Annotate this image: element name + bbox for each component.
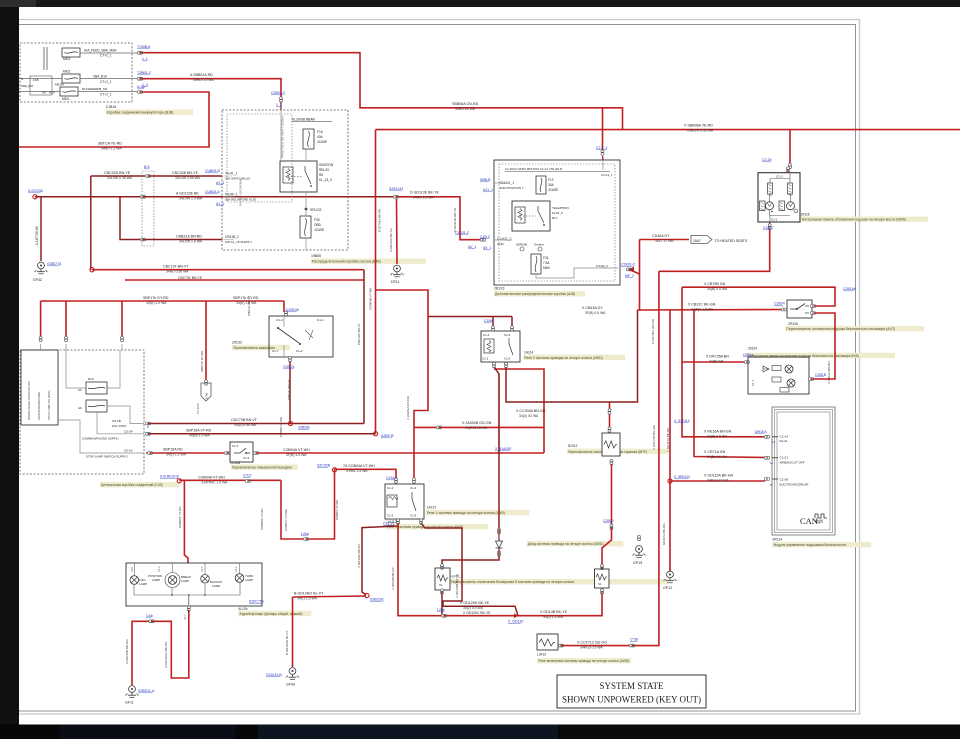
svg-text:MF_2: MF_2	[625, 274, 634, 278]
svg-text:CUB03-B: CUB03-B	[205, 169, 220, 173]
svg-text:34(1) 1.5 WA: 34(1) 1.5 WA	[297, 597, 318, 601]
svg-text:C1-1: C1-1	[771, 218, 778, 222]
svg-text:X GD129C BK-YE: X GD129C BK-YE	[463, 611, 491, 615]
svg-text:34(2) 0.5 WA: 34(2) 0.5 WA	[463, 606, 484, 610]
svg-text:29C32: 29C32	[232, 341, 242, 345]
svg-text:X DR735A BN: X DR735A BN	[706, 355, 729, 359]
svg-text:CT>2_1: CT>2_1	[100, 80, 112, 84]
svg-text:X GD129D BK-YE: X GD129D BK-YE	[460, 601, 490, 605]
svg-text:3F(B) 1.5 WA: 3F(B) 1.5 WA	[286, 453, 307, 457]
svg-text:C1-14: C1-14	[780, 435, 789, 439]
svg-text:N: N	[21, 77, 23, 81]
svg-text:34(B) WA: 34(B) WA	[709, 360, 724, 364]
svg-text:JCASE: JCASE	[548, 188, 558, 192]
svg-text:F31: F31	[543, 256, 549, 260]
svg-text:C1-4: C1-4	[483, 333, 490, 337]
svg-text:JCASE: JCASE	[317, 140, 327, 144]
svg-text:D GD113E BK-YE: D GD113E BK-YE	[410, 191, 439, 195]
svg-text:A SBB01A RD: A SBB01A RD	[190, 73, 213, 77]
svg-text:GND: GND	[497, 242, 505, 246]
svg-text:14: 14	[772, 440, 776, 444]
svg-text:LAMP: LAMP	[139, 582, 147, 586]
svg-text:SBP17b GY-RD: SBP17b GY-RD	[233, 296, 259, 300]
svg-text:L2bb: L2bb	[437, 608, 445, 612]
svg-text:34(05 1.0 WA: 34(05 1.0 WA	[189, 434, 210, 438]
svg-text:1_1: 1_1	[142, 57, 148, 61]
svg-text:JOIN POSITION 7: JOIN POSITION 7	[499, 186, 524, 190]
svg-text:GF0b: GF0b	[286, 683, 295, 687]
svg-text:X CB43A GY: X CB43A GY	[582, 306, 603, 310]
svg-text:CBC32D BN-YE: CBC32D BN-YE	[104, 171, 131, 175]
svg-text:A-A2: A-A2	[137, 85, 145, 89]
svg-text:4L12b: 4L12b	[238, 607, 247, 611]
svg-text:COB08 VT-WH: COB08 VT-WH	[279, 417, 283, 437]
svg-text:F35: F35	[314, 218, 320, 222]
svg-text:C1-4: C1-4	[276, 318, 283, 322]
svg-text:5V REF OR SIGNAL: 5V REF OR SIGNAL	[239, 178, 243, 206]
svg-text:S1: S1	[598, 582, 602, 586]
svg-text:COB04 VT-WH: COB04 VT-WH	[335, 500, 339, 520]
svg-text:L3412: L3412	[537, 653, 546, 657]
svg-text:60 FEEDER/B_SR: 60 FEEDER/B_SR	[82, 87, 108, 91]
svg-text:GP15: GP15	[633, 561, 642, 565]
svg-text:Реле 2 системы привода на четы: Реле 2 системы привода на четыре колеса …	[524, 356, 602, 360]
svg-text:LAMP: LAMP	[181, 579, 189, 583]
svg-text:X 2A392B OG-GN: X 2A392B OG-GN	[462, 421, 492, 425]
svg-text:C1-38: C1-38	[780, 478, 789, 482]
svg-text:34(B) 0.5 WA: 34(B) 0.5 WA	[707, 287, 728, 291]
svg-text:40A: 40A	[317, 135, 324, 139]
svg-text:X CB75B GN: X CB75B GN	[704, 282, 726, 286]
svg-text:CB11a: CB11a	[743, 353, 753, 357]
svg-text:KICKDOWN/RESUME: KICKDOWN/RESUME	[37, 392, 41, 420]
svg-text:CR41B_2: CR41B_2	[225, 235, 239, 239]
svg-text:G1D(24-B: G1D(24-B	[266, 673, 282, 677]
svg-text:C1B-C: C1B-C	[480, 235, 491, 239]
svg-text:GD117A BK-OG: GD117A BK-OG	[662, 523, 666, 545]
svg-text:C2B1B: C2B1B	[815, 373, 827, 377]
svg-text:AV_1: AV_1	[483, 246, 491, 250]
svg-text:IGN SWITCHKL15: IGN SWITCHKL15	[225, 177, 250, 181]
svg-text:SHOWN UNPOWERED (KEY OUT): SHOWN UNPOWERED (KEY OUT)	[562, 695, 701, 705]
svg-text:C?L5: C?L5	[243, 474, 251, 478]
svg-text:C1-K21_2: C1-K21_2	[497, 237, 512, 241]
svg-text:34(D) 1.0 WA: 34(D) 1.0 WA	[146, 301, 167, 305]
svg-text:IGN RELAY GRD KL30: IGN RELAY GRD KL30	[225, 198, 256, 202]
svg-text:A2BP-B: A2BP-B	[381, 434, 394, 438]
svg-text:X_GD12b: X_GD12b	[508, 620, 523, 624]
svg-text:CAb: CAb	[146, 614, 153, 618]
svg-text:SBB-B: SBB-B	[480, 178, 491, 182]
svg-text:1A114: 1A114	[524, 351, 533, 355]
svg-text:MID1: MID1	[63, 57, 71, 61]
svg-text:X CB12C BK-GN: X CB12C BK-GN	[688, 303, 716, 307]
svg-text:C04: C04	[131, 567, 134, 572]
svg-text:C1-2: C1-2	[387, 486, 394, 490]
svg-text:SK: SK	[42, 91, 46, 95]
svg-text:S1: S1	[439, 583, 443, 587]
svg-text:34RD 0.5 WA: 34RD 0.5 WA	[193, 78, 214, 82]
svg-text:C1-7: C1-7	[272, 349, 279, 353]
svg-text:C5-14: C5-14	[124, 449, 133, 453]
svg-text:C1A13: C1A13	[386, 476, 397, 480]
svg-text:C1-8: C1-8	[410, 514, 417, 518]
svg-text:15A7: 15A7	[693, 239, 701, 243]
svg-text:MINI: MINI	[543, 266, 550, 270]
svg-text:19B12H 0.35 WA: 19B12H 0.35 WA	[687, 129, 714, 133]
svg-text:SYSTEM STATE: SYSTEM STATE	[599, 681, 664, 691]
svg-text:CD40A GY: CD40A GY	[652, 234, 670, 238]
svg-text:CJB16: CJB16	[106, 105, 117, 109]
svg-text:C1-3: C1-3	[232, 444, 239, 448]
svg-text:LAMP: LAMP	[152, 578, 160, 582]
svg-text:CBC32B BN-YE: CBC32B BN-YE	[172, 171, 199, 175]
svg-text:SER200: SER200	[516, 243, 528, 247]
svg-text:CBC731 BN-YE: CBC731 BN-YE	[178, 276, 203, 280]
svg-text:X GD32B BK-GY: X GD32B BK-GY	[391, 567, 395, 590]
svg-text:C34B7: C34B7	[763, 226, 774, 230]
svg-text:Распределительная коробка сало: Распределительная коробка салона (BJB)	[312, 260, 381, 264]
svg-text:C2-2_2: C2-2_2	[596, 146, 608, 150]
svg-text:CDC70B BN-VT: CDC70B BN-VT	[231, 418, 258, 422]
svg-text:C1-2: C1-2	[235, 566, 238, 572]
svg-text:C5-1B: C5-1B	[112, 419, 121, 423]
svg-text:MID3A: MID3A	[55, 83, 64, 87]
svg-text:34(3) X2 WA: 34(3) X2 WA	[519, 414, 539, 418]
svg-text:TS-KL_1: TS-KL_1	[225, 172, 238, 176]
svg-text:CBC12C BN-VT: CBC12C BN-VT	[357, 323, 361, 345]
svg-text:1A137: 1A137	[427, 506, 437, 510]
svg-text:COB04? VT-WH: COB04? VT-WH	[284, 509, 288, 531]
svg-text:C1-7: C1-7	[751, 379, 755, 386]
svg-text:34RG3 32 WA: 34RG3 32 WA	[707, 479, 729, 483]
svg-text:SBP16A RD: SBP16A RD	[163, 448, 183, 452]
svg-text:C5-24: C5-24	[124, 430, 133, 434]
svg-text:C2B(2L: C2B(2L	[283, 365, 295, 369]
svg-text:7.5A: 7.5A	[543, 261, 550, 265]
svg-text:34(R13 X2 WA: 34(R13 X2 WA	[465, 426, 488, 430]
svg-text:R10: R10	[88, 377, 94, 381]
svg-text:8CA: 8CA	[49, 91, 55, 95]
svg-text:C1-40C2 (4F62) M53 POS C1-41 Y: C1-40C2 (4F62) M53 POS C1-41 Y/W GN-B	[505, 167, 562, 171]
svg-text:34(1) 1.2 WA: 34(1) 1.2 WA	[166, 453, 187, 457]
svg-text:34RD 0.5b WA: 34RD 0.5b WA	[166, 270, 189, 274]
svg-text:KL15_3: KL15_3	[552, 211, 563, 215]
svg-text:C1-4: C1-4	[410, 486, 417, 490]
svg-text:C1-3: C1-3	[776, 175, 783, 179]
svg-text:F1B: F1B	[33, 78, 39, 82]
svg-text:3-HPR4C 1.5 WA: 3-HPR4C 1.5 WA	[201, 481, 228, 485]
svg-text:34L7 1? WA: 34L7 1? WA	[655, 239, 674, 243]
svg-text:DR1KA: DR1KA	[755, 430, 767, 434]
svg-text:Ometer: Ometer	[534, 243, 544, 247]
svg-text:3-HB1 1.5 WA: 3-HB1 1.5 WA	[346, 469, 368, 473]
svg-text:FA-2L: FA-2L	[780, 439, 789, 443]
svg-text:C1-5: C1-5	[201, 566, 204, 572]
svg-text:SPLICE: SPLICE	[310, 208, 323, 212]
svg-text:34(D) 0.5b WA: 34(D) 0.5b WA	[234, 423, 257, 427]
svg-text:1_1: 1_1	[276, 103, 282, 107]
svg-text:TO-PCB: TO-PCB	[196, 403, 200, 414]
svg-text:9C912: 9C912	[568, 444, 578, 448]
svg-text:24116: 24116	[801, 213, 810, 217]
svg-text:SBP17b GY-RD: SBP17b GY-RD	[143, 296, 169, 300]
svg-text:X CR71A GN: X CR71A GN	[704, 450, 726, 454]
svg-text:34(B) 0.5 WA: 34(B) 0.5 WA	[707, 455, 728, 459]
svg-text:G3B(77A: G3B(77A	[47, 262, 62, 266]
svg-text:GF02: GF02	[33, 278, 42, 282]
svg-text:F16: F16	[317, 130, 323, 134]
svg-text:34RD 1.2 WA: 34RD 1.2 WA	[101, 147, 122, 151]
svg-text:SBB06A GN-RD: SBB06A GN-RD	[452, 102, 479, 106]
svg-text:34LXW 0.5b WA: 34LXW 0.5b WA	[175, 176, 201, 180]
svg-text:CT>2_1: CT>2_1	[100, 93, 112, 97]
svg-text:39154: 39154	[748, 347, 757, 351]
svg-text:KSL JOINT: KSL JOINT	[112, 424, 127, 428]
svg-text:5A: 5A	[78, 388, 82, 392]
svg-text:COB04A VT-WH: COB04A VT-WH	[283, 448, 310, 452]
svg-text:Диод системы привода на четыре: Диод системы привода на четыре колеса (4…	[528, 542, 604, 546]
svg-text:RLY: RLY	[552, 216, 558, 220]
svg-text:T-SBB-6: T-SBB-6	[137, 45, 150, 49]
svg-text:Реле включения системы привода: Реле включения системы привода на четыре…	[538, 659, 629, 663]
svg-text:C1-5: C1-5	[387, 514, 394, 518]
svg-text:B 0Z7026 BK-RD: B 0Z7026 BK-RD	[378, 208, 382, 232]
svg-text:OBD: OBD	[314, 223, 322, 227]
svg-text:Центральная коробка соединений: Центральная коробка соединений (CJB)	[101, 483, 163, 487]
svg-text:C1-2: C1-2	[296, 349, 303, 353]
svg-text:7A COB04A VT-WH: 7A COB04A VT-WH	[343, 464, 375, 468]
svg-text:X GD129B BK-YE: X GD129B BK-YE	[455, 574, 459, 598]
svg-text:COB08F VT-RD: COB08F VT-RD	[260, 508, 264, 530]
svg-text:X CB16A BN-RD: X CB16A BN-RD	[827, 361, 831, 384]
svg-text:34LXW 1.0 WA: 34LXW 1.0 WA	[179, 197, 203, 201]
svg-text:34(B)2 1.5 WA: 34(B)2 1.5 WA	[691, 308, 714, 312]
svg-text:Контрольная панель отключения: Контрольная панель отключения подушки на…	[802, 218, 906, 222]
svg-text:RELAY: RELAY	[319, 168, 330, 172]
svg-text:L2ba: L2ba	[301, 532, 309, 536]
svg-text:VBA_B14: VBA_B14	[93, 75, 107, 79]
svg-text:34RG3 0.5 WA: 34RG3 0.5 WA	[580, 646, 603, 650]
svg-text:A21_1: A21_1	[483, 188, 493, 192]
svg-text:AV_1: AV_1	[468, 245, 476, 249]
svg-text:CBC(2L BN-VT: CBC(2L BN-VT	[247, 295, 251, 316]
svg-text:S-B REJ0-B: S-B REJ0-B	[160, 475, 180, 479]
svg-text:C1-1: C1-1	[317, 318, 324, 322]
svg-text:C1B31-C: C1B31-C	[455, 231, 470, 235]
svg-text:C1-21: C1-21	[780, 456, 789, 460]
svg-text:LAMP: LAMP	[212, 584, 220, 588]
svg-text:34(2) 1.5 WA: 34(2) 1.5 WA	[543, 615, 564, 619]
svg-text:X CCF71C BU-OG: X CCF71C BU-OG	[577, 641, 607, 645]
svg-text:11: 11	[770, 461, 773, 465]
svg-text:E-A9: E-A9	[205, 392, 209, 399]
svg-text:S2B(29C: S2B(29C	[370, 598, 385, 602]
svg-text:C1-6: C1-6	[504, 357, 511, 361]
svg-text:CBB31A BN-RD: CBB31A BN-RD	[176, 235, 202, 239]
svg-text:Коробка соединений аккумулятор: Коробка соединений аккумулятора (BJB)	[107, 111, 174, 115]
svg-text:A 11F72B BK: A 11F72B BK	[35, 225, 39, 245]
svg-text:X SBB06A YE-RD: X SBB06A YE-RD	[684, 124, 713, 128]
svg-text:C?3b: C?3b	[630, 638, 638, 642]
svg-text:X RE16A BN-GN: X RE16A BN-GN	[704, 430, 732, 434]
svg-text:PRE_KAT: PRE_KAT	[21, 84, 34, 88]
svg-text:KL30/SB BBAR: KL30/SB BBAR	[292, 118, 316, 122]
svg-text:A GD113A BK-YE: A GD113A BK-YE	[389, 228, 393, 252]
svg-text:X_51A052: X_51A052	[495, 447, 511, 451]
svg-text:X 2A361A GY-OG: X 2A361A GY-OG	[406, 395, 410, 420]
svg-text:C1-3: C1-3	[158, 566, 161, 572]
svg-text:D GD113E BK-YE: D GD113E BK-YE	[453, 208, 457, 232]
svg-text:X_930112: X_930112	[674, 419, 690, 423]
svg-text:C2-2b: C2-2b	[762, 158, 772, 162]
svg-text:COB08F VT-RD: COB08F VT-RD	[178, 506, 182, 528]
svg-text:Переключатель повышенной перед: Переключатель повышенной передачи	[232, 466, 292, 470]
svg-text:X_9B0112: X_9B0112	[674, 475, 690, 479]
svg-text:Переключатель отключения блоки: Переключатель отключения блокировки 5 си…	[451, 580, 574, 584]
svg-text:19B50: 19B50	[311, 254, 321, 258]
svg-text:S CD73B+ RD-OG: S CD73B+ RD-OG	[651, 318, 655, 344]
svg-text:C2B01-C: C2B01-C	[271, 91, 286, 95]
svg-text:COB04B VT-WH: COB04B VT-WH	[369, 288, 373, 310]
svg-text:X GD129A BK-GY: X GD129A BK-GY	[357, 544, 361, 568]
svg-text:2: 2	[147, 424, 149, 428]
svg-text:C4-7: C4-7	[183, 614, 187, 620]
svg-text:30A: 30A	[548, 183, 555, 187]
svg-text:C1-5: C1-5	[504, 333, 511, 337]
svg-text:CUB03-A: CUB03-A	[205, 190, 220, 194]
svg-text:Реле 1 системы привода на четы: Реле 1 системы привода на четыре колеса …	[427, 511, 505, 515]
svg-text:T2BB1-C: T2BB1-C	[137, 71, 152, 75]
svg-text:C1-2: C1-2	[482, 357, 489, 361]
svg-text:2C30B: 2C30B	[230, 461, 241, 465]
svg-text:X GD117A BK-OG: X GD117A BK-OG	[666, 427, 670, 452]
svg-text:COB04A VT-WH: COB04A VT-WH	[198, 476, 225, 480]
svg-text:HIA_FEED_SBA_MSR: HIA_FEED_SBA_MSR	[84, 49, 117, 53]
svg-text:C34(0_2: C34(0_2	[596, 264, 608, 268]
svg-text:C1B4: C1B4	[484, 319, 493, 323]
svg-text:COMMON/FACING SUPPLY: COMMON/FACING SUPPLY	[82, 437, 119, 441]
svg-text:3A: 3A	[78, 406, 82, 410]
svg-text:C31.31: C31.31	[383, 522, 394, 526]
svg-text:32B(3B: 32B(3B	[298, 426, 310, 430]
svg-text:C2B31-C: C2B31-C	[621, 263, 636, 267]
svg-text:IGNITION: IGNITION	[319, 163, 334, 167]
svg-text:ELECTRONIC/DRL/MT: ELECTRONIC/DRL/MT	[780, 483, 810, 487]
svg-text:2B1X3: 2B1X3	[494, 287, 505, 291]
svg-text:2R114: 2R114	[772, 538, 782, 542]
svg-text:B-5: B-5	[144, 165, 150, 169]
svg-text:34RD 1.5 WA: 34RD 1.5 WA	[413, 196, 434, 200]
svg-text:Дополнительные распределительн: Дополнительные распределительные коробки…	[495, 292, 575, 296]
svg-text:34LXW 0.35 WA: 34LXW 0.35 WA	[107, 176, 133, 180]
svg-text:C1-K1_1: C1-K1_1	[601, 173, 613, 177]
svg-text:SBTCA YE-RD: SBTCA YE-RD	[98, 142, 122, 146]
svg-text:SBP17b GY-RD: SBP17b GY-RD	[200, 350, 204, 372]
svg-text:CT>2_1: CT>2_1	[100, 54, 112, 58]
svg-text:Модуль управления подушками бе: Модуль управления подушками безопасности	[773, 543, 846, 547]
svg-text:C2B10b: C2B10b	[286, 308, 299, 312]
svg-text:B GD12NO BL-VT: B GD12NO BL-VT	[294, 592, 324, 596]
svg-text:S-DG23A: S-DG23A	[28, 189, 44, 193]
svg-text:A1_1: A1_1	[216, 181, 224, 185]
svg-text:C2B24: C2B24	[774, 302, 785, 306]
svg-text:AIRBAG/CUT OFF: AIRBAG/CUT OFF	[780, 461, 805, 465]
svg-text:TELEPHON: TELEPHON	[552, 206, 569, 210]
svg-text:2R12b: 2R12b	[788, 322, 798, 326]
svg-text:34RD X2 WA: 34RD X2 WA	[455, 107, 476, 111]
svg-text:BRAKE PEDAL POSITION SW: BRAKE PEDAL POSITION SW	[27, 381, 31, 420]
svg-text:A GD122E BK: A GD122E BK	[176, 192, 199, 196]
svg-text:SBP15A VT-RD: SBP15A VT-RD	[186, 429, 212, 433]
svg-text:C2B1?: C2B1?	[603, 519, 614, 523]
svg-text:A GD101B BK-OG: A GD101B BK-OG	[125, 639, 129, 664]
svg-text:GP12: GP12	[663, 586, 672, 590]
svg-text:R6: R6	[319, 173, 323, 177]
svg-text:Переключатель отключения подуш: Переключатель отключения подушки безопас…	[786, 327, 895, 331]
svg-text:AIR KL_15 SUPPLY: AIR KL_15 SUPPLY	[225, 240, 252, 244]
svg-text:X CC303A BN-GN: X CC303A BN-GN	[516, 409, 546, 413]
svg-text:JCASE: JCASE	[314, 228, 324, 232]
svg-text:34(B) 0.5 WA: 34(B) 0.5 WA	[707, 435, 728, 439]
svg-text:CBC12F BN-VT: CBC12F BN-VT	[163, 265, 189, 269]
svg-text:A GD101AA BK-OG: A GD101AA BK-OG	[164, 641, 168, 668]
svg-text:A1_2: A1_2	[216, 202, 224, 206]
svg-text:STOP LAMP SWITCH SUPPLY: STOP LAMP SWITCH SUPPLY	[86, 455, 128, 459]
svg-text:TS-86_2: TS-86_2	[225, 193, 237, 197]
svg-text:LAMP: LAMP	[245, 578, 253, 582]
svg-text:3F(B) 0.5 WA: 3F(B) 0.5 WA	[585, 311, 606, 315]
svg-text:S2BD11-A: S2BD11-A	[138, 689, 155, 693]
svg-text:S204133: S204133	[389, 187, 403, 191]
svg-text:X CCF71B BU-OG: X CCF71B BU-OG	[652, 424, 656, 450]
svg-text:X GD14B BK-YE: X GD14B BK-YE	[540, 610, 568, 614]
svg-text:DF11: DF11	[391, 280, 400, 284]
svg-text:CBC(2L BN-VT: CBC(2L BN-VT	[287, 379, 291, 400]
svg-text:MID1: MID1	[63, 70, 71, 74]
svg-text:F13: F13	[548, 178, 554, 182]
svg-text:MIDL: MIDL	[62, 97, 70, 101]
svg-text:KL_15_3: KL_15_3	[319, 178, 332, 182]
svg-text:GF11: GF11	[125, 701, 134, 705]
svg-text:34LXW 1.0 WA: 34LXW 1.0 WA	[179, 240, 203, 244]
svg-text:S2C30B: S2C30B	[317, 464, 331, 468]
svg-text:TO HEATED SEATS: TO HEATED SEATS	[715, 239, 748, 243]
svg-text:B GD12NO BL-VT: B GD12NO BL-VT	[285, 630, 289, 655]
svg-text:X GD115A BK-GN: X GD115A BK-GN	[704, 474, 733, 478]
svg-text:62DC79E: 62DC79E	[249, 600, 265, 604]
svg-text:C1-6: C1-6	[243, 456, 250, 460]
svg-text:STOP LAMP SW (BPP): STOP LAMP SW (BPP)	[47, 391, 51, 420]
svg-text:C2B16b: C2B16b	[843, 287, 856, 291]
